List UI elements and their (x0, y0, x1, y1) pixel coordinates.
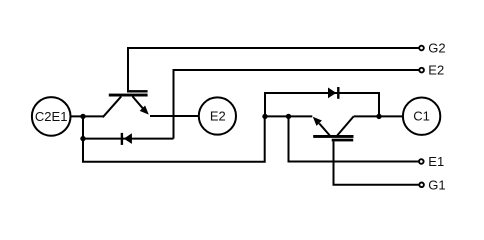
node diode loop left (262, 114, 267, 119)
IGBT Q2 (103, 90, 149, 117)
wire E1 sense run (289, 116, 419, 161)
wire right section emitter segment (265, 115, 313, 117)
gate bar (332, 139, 354, 142)
svg-text:C2E1: C2E1 (35, 109, 68, 124)
node junction left upper (80, 114, 85, 119)
svg-text:E2: E2 (210, 109, 226, 124)
terminal E2 power (199, 97, 236, 134)
gate bar (127, 90, 148, 92)
node E1 sense (286, 114, 291, 119)
terminal C2E1 (32, 97, 71, 136)
collector leg (103, 96, 121, 117)
pin G1 (419, 177, 445, 192)
svg-text:C1: C1 (413, 109, 430, 124)
svg-text:E1: E1 (428, 154, 444, 169)
wire G2 run (128, 48, 419, 90)
wire C1 collector segment (354, 115, 403, 117)
collector leg (337, 116, 353, 135)
wire diode D1 loop (265, 93, 379, 116)
pin G2 (419, 41, 445, 56)
wire diode D2 anode run (83, 138, 174, 140)
wire G1 run (334, 141, 419, 184)
wire E2 sense run (174, 70, 419, 139)
emitter leg with arrow (133, 96, 144, 108)
svg-text:G1: G1 (428, 177, 445, 192)
emitter leg with arrow (319, 123, 330, 135)
diode D1 (328, 87, 338, 99)
node diode loop right (376, 114, 381, 119)
pin E1 (419, 154, 444, 169)
wire C2E1 to IGBT2 collector (71, 115, 104, 117)
body bar (109, 94, 148, 97)
diode D2 (122, 133, 132, 145)
wire left vertical / bottom run to right section (83, 116, 265, 161)
pin E2 (419, 63, 444, 78)
svg-text:G2: G2 (428, 41, 445, 56)
svg-text:E2: E2 (428, 63, 444, 78)
body bar (313, 135, 353, 138)
wire IGBT Q2 emitter to E2 (150, 115, 200, 117)
node junction left lower (80, 136, 85, 141)
terminal C1 (403, 98, 440, 135)
IGBT Q1 (313, 116, 354, 141)
